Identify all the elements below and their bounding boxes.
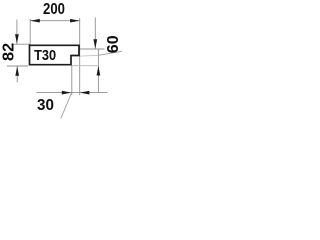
arrowhead 30 right pointing left	[80, 91, 90, 95]
leader diagonal bottom left	[61, 94, 72, 119]
svg-text:60: 60	[105, 35, 122, 53]
extension line right vertical x=79.7 full	[79, 18, 81, 95]
part outline profile	[30, 45, 80, 64]
extension line horizontal bottom-left y=66	[7, 65, 28, 67]
extension line vertical x=71.5 lower	[71, 66, 73, 96]
arrowhead up at bottom reference	[97, 66, 101, 76]
svg-text:30: 30	[37, 97, 54, 114]
extension line vertical x=98.4 lower	[97, 49, 99, 92]
extension line horizontal right y=49	[80, 48, 105, 50]
dimension line 200	[30, 20, 79, 22]
dimension line 82 upper segment	[16, 20, 18, 44]
extension line horizontal top-left y=44.2	[11, 43, 30, 45]
dimension line 82 lower segment	[16, 66, 18, 82]
svg-text:200: 200	[43, 1, 65, 18]
leader diagonal right	[98, 51, 122, 55]
extension line faint horizontal y=65.7 right	[72, 65, 98, 67]
svg-text:82: 82	[0, 43, 17, 61]
arrowhead 82 up	[15, 66, 19, 76]
arrowhead 82 down	[15, 34, 19, 44]
arrowhead 60 down	[93, 39, 97, 49]
extension line left vertical x=30	[29, 19, 31, 45]
dimension line 30 horizontal y=92.6	[37, 92, 108, 94]
svg-text:T30: T30	[34, 46, 56, 63]
arrowhead 200 right	[70, 19, 80, 23]
leader faint segment from step corner	[80, 54, 99, 57]
dimension line 60 vertical x=95.3	[94, 18, 96, 49]
arrowhead 200 left	[30, 19, 40, 23]
arrowhead 30 left pointing right	[62, 91, 72, 95]
